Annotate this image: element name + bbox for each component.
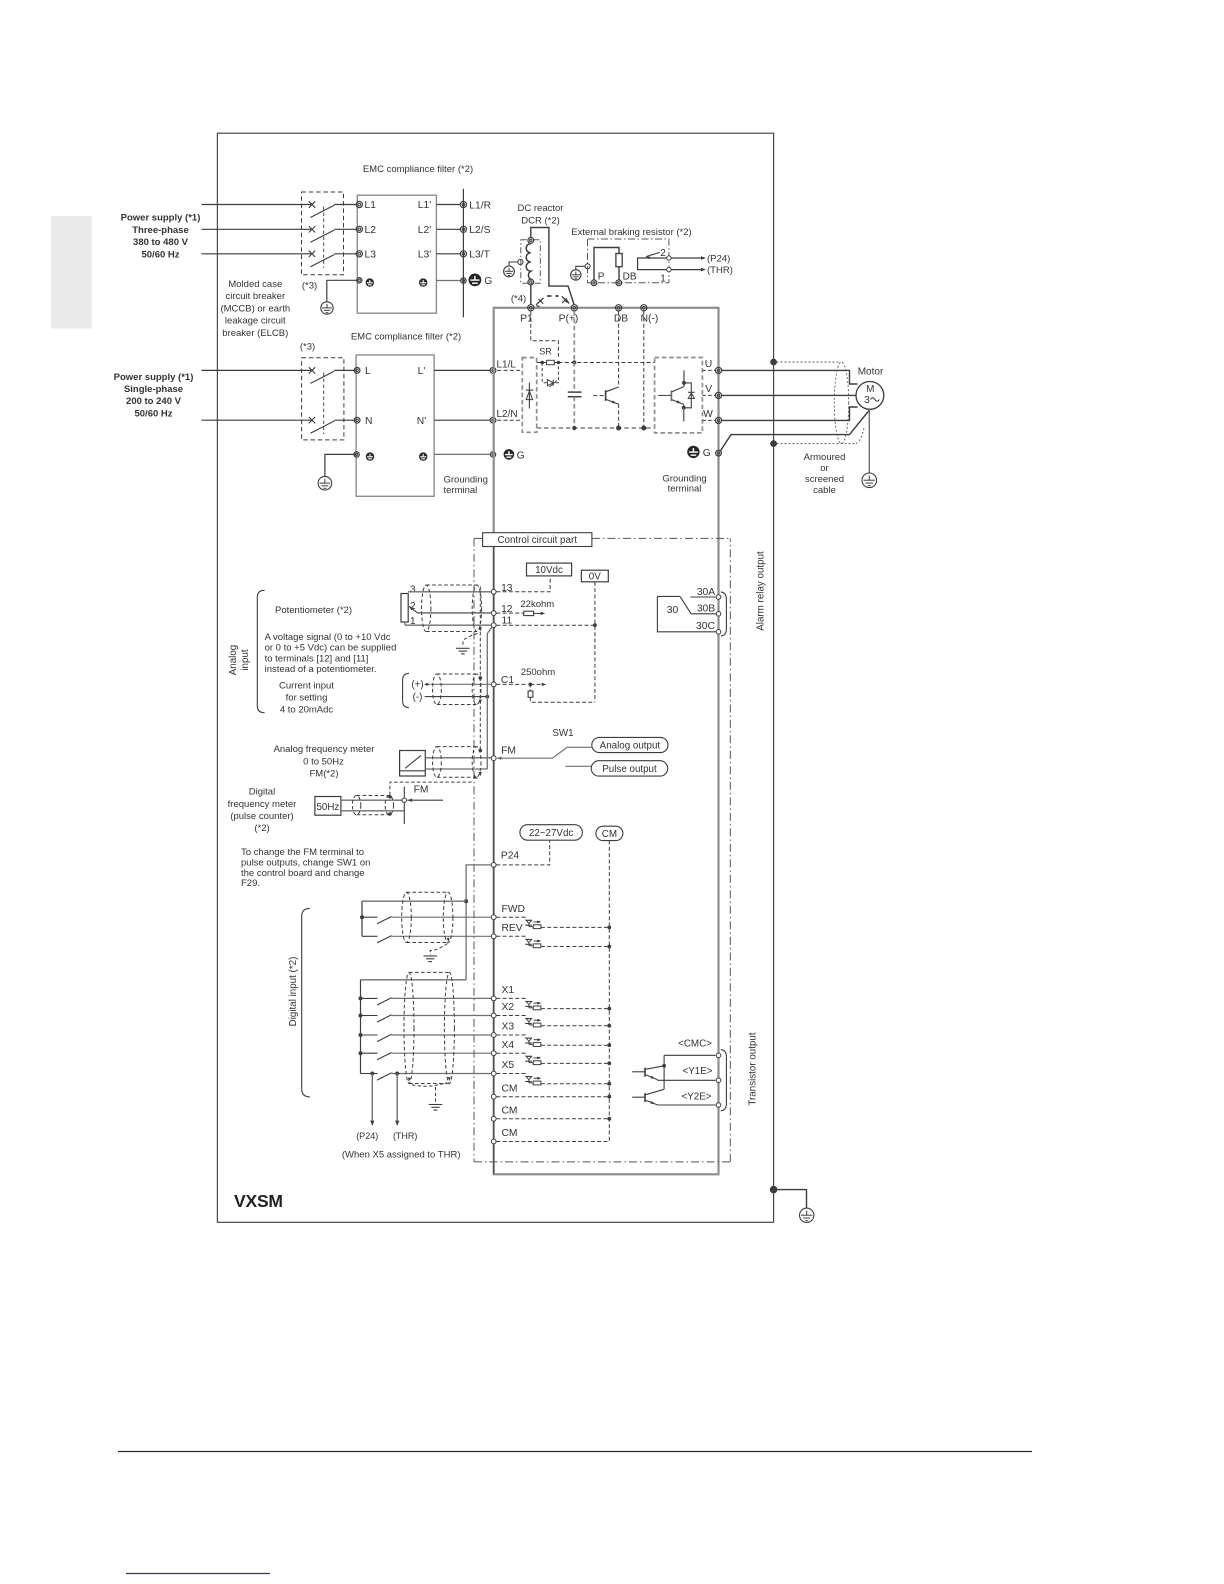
terminal contact 1 [667, 267, 671, 271]
svg-text:3: 3 [864, 395, 870, 406]
wire 11 dashed [496, 624, 595, 626]
svg-text:To change the FM terminal to: To change the FM terminal to [241, 847, 364, 858]
svg-text:L2: L2 [365, 225, 377, 236]
terminal 11 circle [491, 623, 496, 628]
wire 0V dashed [594, 582, 596, 702]
ground symbol G bar [469, 274, 482, 287]
svg-text:(*3): (*3) [302, 281, 317, 292]
wire fwd-rev drain [447, 938, 450, 942]
svg-text:N(-): N(-) [641, 313, 659, 324]
junction Q1 collector [662, 1064, 666, 1068]
svg-text:SW1: SW1 [552, 728, 573, 739]
wire 250ohm to 0V [530, 697, 595, 702]
wire P24 down arrow [371, 1074, 373, 1121]
svg-text:200 to 240 V: 200 to 240 V [126, 396, 182, 407]
MCCB breaker box (three-phase) [302, 192, 344, 275]
svg-text:REV: REV [502, 923, 523, 934]
shield current input cable [433, 674, 442, 705]
footer rule [118, 1451, 1032, 1453]
wire minus input [425, 696, 488, 698]
wire to P24 arrow [671, 257, 701, 259]
wire shield drain vertical [479, 587, 481, 751]
svg-text:instead of a potentiometer.: instead of a potentiometer. [265, 664, 377, 675]
svg-text:X2: X2 [502, 1002, 515, 1013]
junction P24 arrow [370, 1072, 374, 1076]
svg-text:X1: X1 [502, 985, 515, 996]
svg-text:0V: 0V [589, 571, 601, 582]
svg-text:380 to 480 V: 380 to 480 V [133, 237, 189, 248]
wire braking resistor loop [594, 248, 619, 280]
wire N' to L2/N [434, 419, 490, 421]
wire resistor to DB terminal [618, 267, 620, 280]
wire L2/N internal dashed [497, 419, 522, 421]
wire P1 internal dashed [531, 311, 559, 359]
svg-text:leakage circuit: leakage circuit [225, 316, 286, 327]
wire opto X2 to CM bus [541, 1025, 609, 1027]
svg-text:External braking resistor (*2: External braking resistor (*2) [571, 227, 691, 238]
footer link line [126, 1573, 270, 1575]
wire DCR top loop to P(+) [531, 228, 574, 306]
junction common fwd [464, 899, 468, 903]
junction minus to return [485, 695, 489, 699]
potentiometer wiper [409, 606, 414, 610]
terminal Y2E [716, 1103, 721, 1108]
resistor 250ohm [529, 684, 531, 691]
input bus bar [462, 189, 464, 318]
optocoupler FWD [526, 919, 532, 921]
junction drain FM shield [479, 749, 483, 753]
svg-text:13: 13 [501, 583, 513, 594]
svg-text:or 0 to +5 Vdc) can be supplie: or 0 to +5 Vdc) can be supplied [265, 643, 397, 654]
wire shield to ground dashed [463, 634, 478, 648]
svg-text:10Vdc: 10Vdc [535, 565, 563, 576]
terminal L3 filter1 [356, 251, 362, 257]
wire 22kohm arrow [534, 612, 541, 614]
wire C1 arrow [530, 683, 542, 685]
ground symbol filter1 inner-left [366, 278, 374, 286]
capacitor DC link [568, 391, 582, 393]
svg-text:12: 12 [501, 604, 513, 615]
wire CM bus dashed [608, 841, 610, 1142]
potentiometer body [401, 594, 408, 623]
wire V to motor [722, 394, 856, 396]
terminal X3 [491, 1033, 496, 1038]
svg-text:Alarm relay output: Alarm relay output [756, 551, 767, 631]
svg-text:DC reactor: DC reactor [518, 203, 564, 214]
terminal L1/L [490, 368, 496, 374]
svg-text:(When X5 assigned to THR): (When X5 assigned to THR) [342, 1150, 461, 1161]
wire pot 1 [404, 622, 406, 625]
wire SR bypass loop [542, 363, 546, 383]
svg-text:L2/N: L2/N [497, 409, 518, 420]
svg-text:V: V [705, 384, 712, 395]
wire 50Hz top [341, 799, 404, 801]
svg-text:<Y1E>: <Y1E> [683, 1066, 713, 1077]
wire L1 supply [202, 204, 312, 206]
junction cable shield top [770, 359, 777, 366]
svg-text:L1': L1' [418, 200, 431, 211]
shield FM cable [433, 747, 442, 778]
breaker pole L3 [309, 251, 315, 257]
bracket digital input [302, 908, 310, 1097]
svg-text:Digital: Digital [249, 787, 275, 798]
wire L3 supply [202, 253, 312, 255]
junction opto X2 [607, 1024, 611, 1028]
inverter unit box [494, 308, 719, 1175]
svg-text:G: G [484, 276, 492, 287]
junction 50Hz shield top [388, 795, 392, 799]
junction opto FWD [607, 926, 611, 930]
external braking resistor box [588, 239, 669, 283]
breaker pole single-phase [309, 417, 315, 423]
svg-text:Armoured: Armoured [804, 452, 846, 463]
svg-text:2: 2 [660, 248, 666, 259]
svg-text:L: L [365, 366, 371, 377]
svg-text:FM: FM [414, 785, 429, 796]
EMC filter box 2 [356, 355, 434, 496]
shield 50Hz cable [352, 796, 360, 815]
meter analog FM [400, 751, 426, 777]
svg-text:X5: X5 [502, 1060, 515, 1071]
wire 13 dashed [496, 576, 550, 592]
svg-text:50Hz: 50Hz [316, 802, 339, 813]
wire X left rail [360, 980, 362, 1074]
svg-text:Pulse output: Pulse output [602, 764, 657, 775]
ground electrode braking resistor [571, 270, 581, 280]
wire Y1E [657, 1079, 659, 1082]
terminal L filter2 [354, 368, 360, 374]
wire CM2 dashed [496, 1118, 609, 1120]
svg-text:<CMC>: <CMC> [678, 1039, 712, 1050]
terminal L1/R [460, 201, 466, 207]
svg-text:VXSM: VXSM [234, 1191, 283, 1211]
svg-text:G: G [703, 448, 711, 459]
junction P(+) bus [572, 360, 576, 364]
ground electrode DCR [504, 266, 515, 277]
terminal FM [491, 756, 496, 761]
svg-text:W: W [703, 409, 713, 420]
junction cable shield bottom [770, 440, 777, 447]
svg-text:50/60 Hz: 50/60 Hz [134, 408, 172, 419]
terminal L3/T [460, 251, 466, 257]
ground electrode filter1 [321, 302, 333, 314]
terminal FWD [491, 915, 496, 920]
wire REV to opto [496, 936, 525, 939]
wire N(-) internal dashed [643, 311, 645, 428]
ground electrode motor [862, 473, 877, 488]
diode freewheel [684, 383, 692, 408]
svg-text:N': N' [417, 416, 426, 427]
wire common top [362, 900, 466, 902]
box 50Hz meter [315, 797, 341, 816]
switch X1 [359, 996, 363, 1000]
breaker pole L1 [309, 201, 315, 207]
wire DC bus top dashed [558, 362, 654, 364]
svg-text:the control board and change: the control board and change [241, 868, 365, 879]
svg-text:Analog output: Analog output [600, 741, 661, 752]
shield potentiometer cable [422, 585, 431, 632]
svg-text:N: N [365, 416, 372, 427]
ground symbol filter2 inner-left [366, 452, 374, 460]
optocoupler X2 [526, 1018, 532, 1020]
relay SR contact [540, 361, 544, 365]
terminal P24 [491, 863, 496, 868]
bubble Pulse output [591, 761, 668, 776]
wire 50Hz drain dashed [390, 782, 473, 795]
terminal Y1E [716, 1078, 721, 1083]
bracket alarm relay [721, 592, 727, 636]
wire P24 to switches [466, 865, 491, 980]
svg-text:CM: CM [502, 1083, 518, 1094]
svg-text:1: 1 [660, 274, 666, 285]
wire W to motor [722, 407, 858, 420]
terminal U [715, 367, 721, 373]
switch X4 [359, 1051, 363, 1055]
optocoupler REV [526, 938, 532, 940]
wire V dashed [702, 394, 715, 396]
terminal E filter2 [354, 452, 359, 457]
inverter module box [655, 358, 703, 433]
svg-text:or: or [820, 463, 828, 474]
terminal DCR top [528, 237, 534, 243]
breaker linkage (three-phase) [323, 207, 325, 269]
svg-text:11: 11 [501, 616, 512, 627]
box 10Vdc [527, 563, 572, 576]
wire CM3 dashed [496, 1141, 609, 1143]
svg-text:M: M [866, 384, 874, 395]
wire DCR shield ground [509, 262, 518, 266]
svg-text:FM(*2): FM(*2) [309, 769, 338, 780]
wire opto X5 to CM bus [541, 1083, 609, 1085]
terminal X5 [491, 1071, 496, 1076]
wire contact loop [638, 258, 667, 270]
svg-text:pulse outputs, change SW1 on: pulse outputs, change SW1 on [241, 857, 370, 868]
transistor Y1 [632, 1071, 645, 1073]
svg-text:Power supply (*1): Power supply (*1) [121, 213, 201, 224]
junction CM1 [607, 1095, 611, 1099]
svg-text:breaker (ELCB): breaker (ELCB) [222, 328, 288, 339]
svg-text:L1/R: L1/R [469, 200, 491, 211]
svg-text:(P24): (P24) [356, 1131, 378, 1141]
svg-text:EMC compliance filter (*2): EMC compliance filter (*2) [351, 332, 461, 343]
terminal P1 [528, 305, 534, 311]
wire 50Hz bottom [341, 810, 404, 812]
svg-text:FM: FM [501, 745, 516, 756]
wire opto X3 to CM bus [541, 1044, 609, 1046]
terminal L1 filter1 [356, 201, 362, 207]
junction capacitor bottom [572, 426, 576, 430]
terminal DCR shield [518, 259, 523, 264]
svg-text:input: input [240, 649, 251, 671]
junction opto X1 [607, 1007, 611, 1011]
jumper (*4) between P1 and P(+) [536, 298, 544, 305]
ground symbol filter1 inner-right [419, 278, 427, 286]
switch X3 [359, 1033, 363, 1037]
svg-text:(*4): (*4) [511, 294, 526, 305]
terminal G right [716, 450, 722, 456]
optocoupler X4 [526, 1055, 532, 1057]
terminal DB resistor [616, 280, 622, 286]
junction CM2 [607, 1117, 611, 1121]
junction 0V-11 [593, 623, 597, 627]
wire 11 return vertical [487, 627, 492, 634]
junction THR arrow [395, 1072, 399, 1076]
svg-text:(THR): (THR) [707, 265, 733, 276]
DC reactor box [521, 240, 541, 283]
resistor DB body [616, 254, 622, 267]
terminal X2 [491, 1013, 496, 1018]
svg-text:G: G [517, 450, 525, 461]
switch X2 [359, 1014, 363, 1018]
svg-text:(*2): (*2) [254, 823, 269, 834]
node FM pulse [403, 787, 405, 825]
control terminal rail [493, 535, 495, 1174]
svg-text:Analog: Analog [228, 645, 239, 676]
wire earth filter2 to G [434, 453, 490, 455]
svg-text:P(+): P(+) [559, 313, 579, 324]
wire X2 to opto [496, 1016, 525, 1019]
svg-text:X4: X4 [502, 1040, 515, 1051]
breaker linkage (single-phase) [323, 373, 325, 435]
wire DCR bottom to P1 [530, 285, 532, 305]
terminal L2 filter1 [356, 226, 362, 232]
wire 30A [690, 596, 715, 598]
svg-text:DB: DB [614, 313, 628, 324]
svg-text:terminal: terminal [668, 484, 702, 495]
switch REV [362, 935, 378, 937]
svg-text:L': L' [418, 366, 426, 377]
svg-text:L3/T: L3/T [469, 250, 490, 261]
wire G to motor [721, 411, 870, 451]
wire C1 dashed [496, 683, 528, 685]
svg-text:U: U [705, 359, 712, 370]
wire U to motor [722, 370, 858, 384]
shield FWD REV cable [402, 892, 412, 942]
bubble CM [596, 826, 623, 840]
wire opto REV to CM bus [541, 946, 609, 948]
svg-text:DCR (*2): DCR (*2) [521, 215, 560, 226]
wire common to X rail [361, 979, 467, 981]
terminal G bar [461, 278, 467, 284]
svg-text:CM: CM [502, 1128, 518, 1139]
terminal DCR bottom [528, 279, 534, 285]
svg-text:terminal: terminal [444, 485, 478, 496]
wire X3 to opto [496, 1035, 525, 1038]
box 0V [581, 570, 608, 582]
bracket current input [403, 673, 409, 707]
gray margin block [51, 216, 92, 329]
svg-text:30: 30 [667, 605, 679, 616]
bracket analog input [257, 590, 264, 712]
terminal E filter1 left [357, 278, 362, 283]
control circuit boundary [473, 538, 475, 1162]
wire filter1 earth to ground [327, 280, 358, 302]
ground bars FWD REV [423, 955, 437, 957]
terminal 30A [716, 595, 721, 600]
ground electrode filter2 [318, 476, 332, 490]
terminal P(+) [571, 305, 577, 311]
svg-text:EMC compliance filter (*2): EMC compliance filter (*2) [363, 164, 473, 175]
thyristor SR [547, 380, 553, 386]
terminal V [715, 392, 721, 398]
diode rectifier [528, 383, 530, 409]
wire Y2E [657, 1104, 659, 1106]
terminal G left [490, 452, 495, 457]
optocoupler X3 [526, 1037, 532, 1039]
wire capacitor to bottom bus [573, 397, 575, 428]
wire N supply [202, 419, 312, 421]
rectifier module box [522, 358, 536, 433]
ground bars X [429, 1104, 443, 1106]
ground electrode chassis [800, 1208, 814, 1222]
relay 30 outline [657, 596, 717, 631]
optocoupler X5 [526, 1076, 532, 1078]
optocoupler X1 [526, 1001, 532, 1003]
wire U dashed [702, 369, 715, 371]
svg-text:DB: DB [623, 272, 637, 283]
terminal P [591, 280, 597, 286]
svg-text:to terminals [12] and [11]: to terminals [12] and [11] [265, 653, 369, 664]
wire FWD to opto [496, 917, 525, 920]
wire earth filter1 to G bar [436, 280, 460, 282]
svg-text:Three-phase: Three-phase [132, 225, 189, 236]
wire SW1 common [497, 757, 501, 760]
wire 30B [691, 613, 717, 615]
wire SW1 pulse contact [566, 765, 592, 767]
wire 22-27Vdc dashed [496, 840, 549, 865]
svg-text:(pulse counter): (pulse counter) [230, 811, 293, 822]
svg-text:P24: P24 [501, 851, 520, 862]
junction opto X3 [607, 1043, 611, 1047]
wire L3' to L3/T [436, 253, 460, 255]
wire L1' to L1/R [436, 204, 460, 206]
svg-text:2: 2 [410, 601, 416, 612]
wire CMC [664, 1054, 715, 1056]
junction opto REV [607, 945, 611, 949]
control circuit part box [483, 533, 592, 547]
transistor brake chopper [593, 395, 605, 397]
wire fwd-rev left rail [361, 901, 363, 936]
wire pot 3 [408, 591, 491, 593]
svg-text:CM: CM [502, 1106, 518, 1117]
terminal CM3 [491, 1139, 496, 1144]
wire L supply [202, 369, 312, 371]
svg-text:(-): (-) [413, 692, 423, 703]
transistor Y2 [632, 1096, 645, 1098]
svg-text:L2/S: L2/S [469, 225, 490, 236]
breaker pole single-phase [309, 367, 315, 373]
svg-text:Single-phase: Single-phase [124, 384, 183, 395]
svg-text:(MCCB) or earth: (MCCB) or earth [220, 303, 290, 314]
wire motor ground [868, 409, 870, 473]
svg-text:F29.: F29. [241, 878, 260, 889]
svg-text:FWD: FWD [502, 904, 525, 915]
svg-text:22kohm: 22kohm [520, 599, 554, 610]
terminal contact 2 [667, 256, 671, 260]
svg-text:X3: X3 [502, 1022, 515, 1033]
svg-text:30C: 30C [696, 621, 715, 632]
breaker pole L2 [309, 226, 315, 232]
junction drain C1 shield [479, 676, 483, 680]
terminal N filter2 [354, 417, 360, 423]
thermal contact blade [646, 252, 660, 256]
svg-text:L1: L1 [365, 200, 377, 211]
svg-text:CM: CM [602, 829, 617, 840]
svg-text:Molded case: Molded case [228, 279, 282, 290]
bracket transistor output [721, 1050, 727, 1111]
wire X4 to opto [496, 1053, 525, 1056]
terminal C1 [491, 682, 496, 687]
